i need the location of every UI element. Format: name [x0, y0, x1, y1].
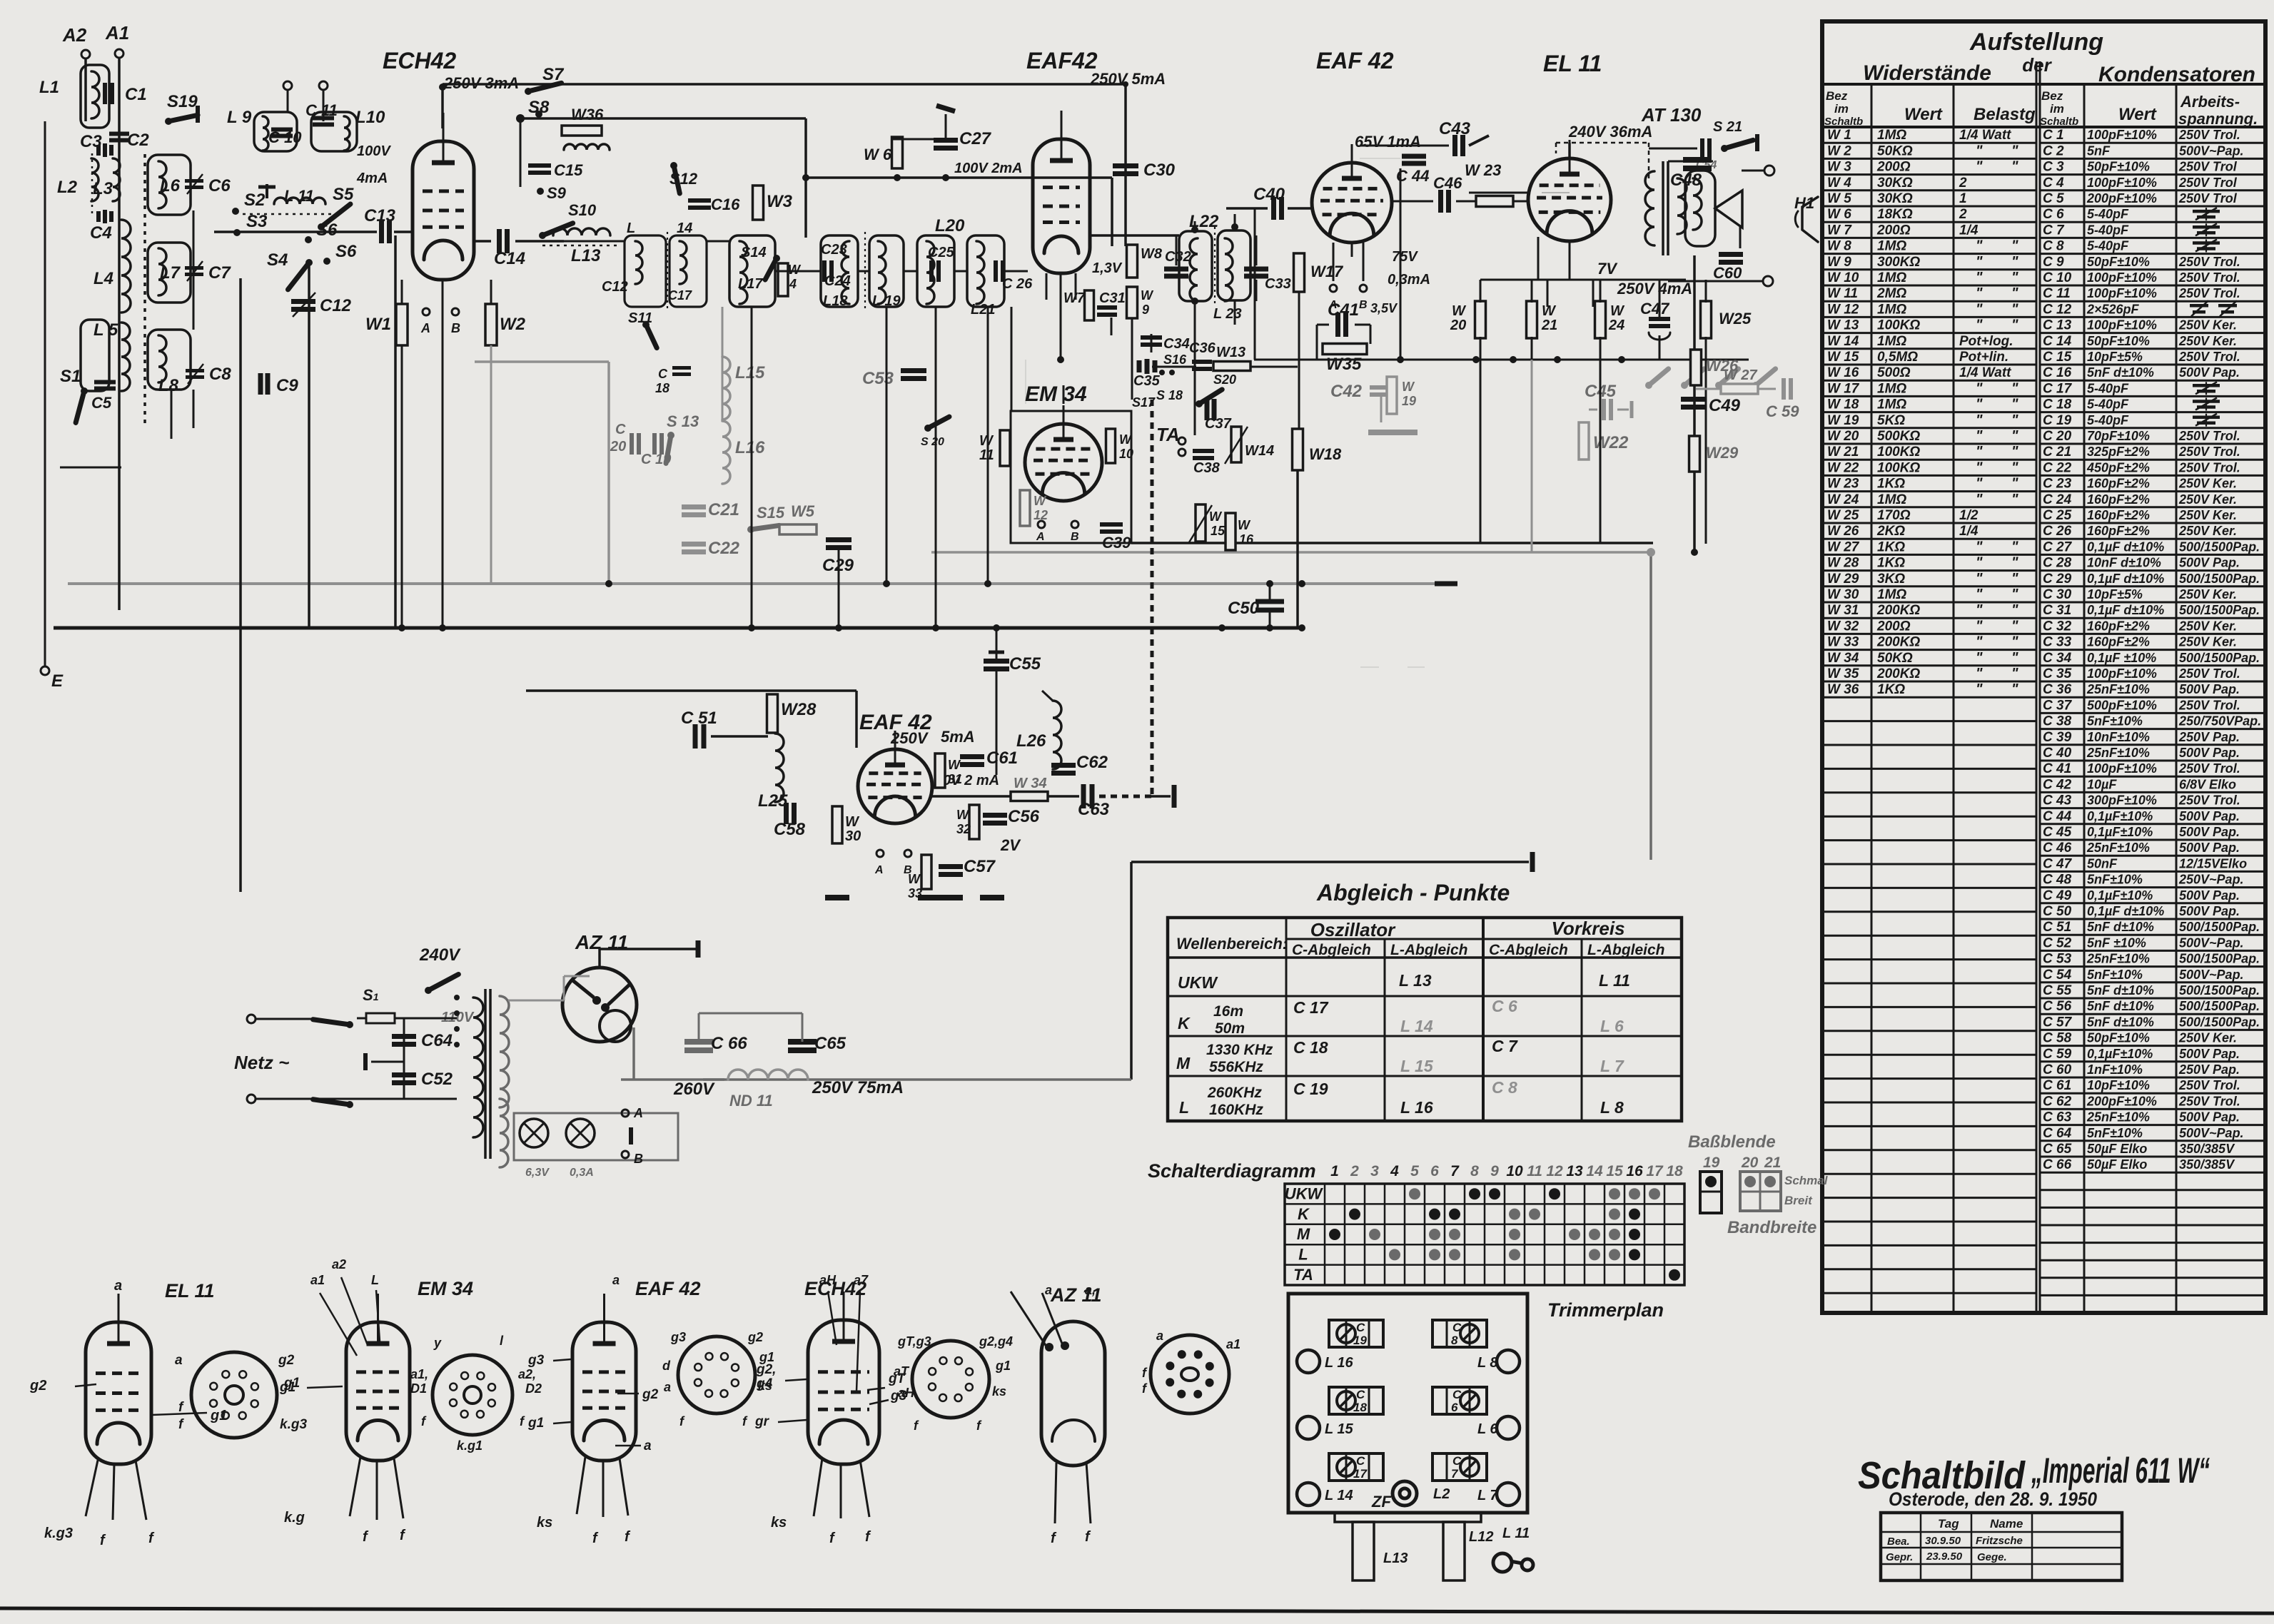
svg-text:W 11: W 11: [1827, 286, 1858, 301]
svg-text:500V Pap.: 500V Pap.: [2179, 825, 2240, 839]
svg-text:75V: 75V: [1392, 249, 1418, 265]
svg-text:a: a: [1156, 1329, 1163, 1343]
svg-text:g3: g3: [670, 1330, 686, 1344]
choke ND11: [728, 1070, 808, 1080]
svg-text:19: 19: [1402, 394, 1416, 408]
svg-text:17: 17: [1646, 1163, 1664, 1179]
svg-text:Oszillator: Oszillator: [1310, 919, 1396, 940]
svg-text:": ": [2011, 602, 2018, 618]
svg-text:7V: 7V: [1597, 260, 1618, 278]
svg-text:L 13: L 13: [1399, 971, 1432, 990]
svg-text:W 16: W 16: [1827, 365, 1859, 380]
svg-text:C 50: C 50: [2043, 904, 2072, 919]
wire c66 up: [698, 1013, 700, 1042]
svg-text:500V Pap.: 500V Pap.: [2179, 556, 2240, 570]
svg-text:C 5: C 5: [2043, 191, 2064, 206]
capacitor C60: [1719, 255, 1743, 263]
svg-text:5-40pF: 5-40pF: [2087, 239, 2129, 253]
svg-text:Pot+lin.: Pot+lin.: [1959, 350, 2008, 365]
svg-text:100V: 100V: [357, 143, 391, 159]
svg-text:Fritzsche: Fritzsche: [1976, 1535, 2023, 1547]
wire c64 c52 column: [403, 1018, 405, 1099]
svg-text:C 11: C 11: [2043, 286, 2071, 301]
speaker horn: [1715, 191, 1742, 228]
svg-text:50µF Elko: 50µF Elko: [2087, 1142, 2147, 1156]
capacitor C34: [1141, 338, 1162, 345]
wire eaf2 legs: [1333, 243, 1363, 281]
svg-text:a2: a2: [332, 1257, 346, 1272]
wire el11 cathode: [1569, 241, 1571, 280]
wire out y1116: [932, 795, 1011, 798]
resistor W1: [396, 304, 408, 345]
svg-text:250V Pap.: 250V Pap.: [2178, 730, 2240, 744]
svg-text:im: im: [2050, 102, 2064, 116]
svg-text:C 19: C 19: [2043, 413, 2072, 428]
svg-text:ECH42: ECH42: [383, 48, 456, 73]
svg-text:500V~Pap.: 500V~Pap.: [2179, 935, 2244, 950]
svg-text:500Ω: 500Ω: [1877, 365, 1911, 380]
svg-text:30: 30: [845, 828, 861, 844]
svg-text:50pF±10%: 50pF±10%: [2087, 255, 2150, 269]
svg-text:g1: g1: [995, 1359, 1011, 1373]
svg-text:C48: C48: [1670, 171, 1702, 190]
svg-text:A2: A2: [62, 24, 87, 46]
svg-text:a1: a1: [1226, 1337, 1240, 1351]
svg-text:C 61: C 61: [2043, 1078, 2071, 1093]
svg-text:k.g3: k.g3: [280, 1417, 307, 1432]
svg-text:250V Ker.: 250V Ker.: [2178, 619, 2237, 633]
svg-text:32: 32: [956, 822, 971, 836]
svg-text:L 6: L 6: [1477, 1421, 1498, 1437]
svg-text:C: C: [658, 367, 668, 381]
svg-text:Pot+log.: Pot+log.: [1959, 334, 2013, 349]
svg-text:": ": [1976, 318, 1983, 333]
svg-text:a: a: [612, 1273, 620, 1287]
svg-text:EM 34: EM 34: [1025, 382, 1087, 406]
svg-text:": ": [1976, 380, 1983, 396]
svg-text:W 36: W 36: [1827, 682, 1859, 697]
svg-text:250V Trol.: 250V Trol.: [2178, 445, 2240, 459]
capacitor C42 grey: [1370, 387, 1393, 422]
svg-text:C49: C49: [1709, 396, 1741, 415]
svg-text:250V Trol: 250V Trol: [2178, 191, 2238, 205]
svg-text:240V 36mA: 240V 36mA: [1568, 123, 1652, 141]
C33 capacitor: [1244, 269, 1268, 276]
svg-text:W18: W18: [1309, 445, 1342, 463]
svg-text:Osterode, den 28. 9. 1950: Osterode, den 28. 9. 1950: [1889, 1488, 2097, 1510]
transformer core: [485, 989, 490, 1159]
svg-text:250V Trol.: 250V Trol.: [2178, 761, 2240, 776]
svg-text:": ": [2011, 666, 2018, 681]
svg-text:W36: W36: [571, 106, 604, 123]
svg-text:5-40pF: 5-40pF: [2087, 223, 2129, 237]
svg-text:gr: gr: [754, 1414, 770, 1429]
svg-text:500V Pap.: 500V Pap.: [2179, 904, 2240, 918]
wire A2 down: [84, 59, 87, 121]
svg-text:W 27: W 27: [1724, 367, 1758, 383]
svg-text:C 55: C 55: [2043, 983, 2072, 998]
svg-text:aT: aT: [894, 1364, 910, 1379]
svg-text:C47: C47: [1640, 300, 1670, 318]
wire el11 left: [1469, 192, 1527, 194]
svg-text:W: W: [1119, 432, 1133, 447]
svg-text:L 14: L 14: [1325, 1488, 1353, 1503]
svg-text:23.9.50: 23.9.50: [1926, 1551, 1963, 1563]
svg-text:25nF±10%: 25nF±10%: [2086, 746, 2150, 760]
svg-text:W 35: W 35: [1827, 666, 1859, 681]
svg-text:250V Ker.: 250V Ker.: [2178, 587, 2237, 602]
L13 dashed: [542, 245, 621, 247]
svg-text:C62: C62: [1076, 753, 1108, 772]
svg-text:200Ω: 200Ω: [1876, 619, 1911, 634]
svg-text:L 23: L 23: [1213, 306, 1242, 322]
svg-text:100pF±10%: 100pF±10%: [2087, 176, 2157, 190]
svg-text:B: B: [634, 1152, 643, 1166]
svg-text:C 4: C 4: [2043, 176, 2064, 191]
svg-text:C23: C23: [821, 242, 847, 258]
resistor W27 grey: [1721, 384, 1758, 394]
svg-text:L12: L12: [1469, 1529, 1493, 1545]
capacitor C47: [1649, 319, 1670, 340]
svg-text:500/1500Pap.: 500/1500Pap.: [2179, 983, 2260, 998]
svg-text:C 62: C 62: [2043, 1094, 2072, 1109]
svg-text:W 28: W 28: [1827, 556, 1859, 571]
wire L26 corner: [1042, 691, 1053, 701]
svg-text:L6: L6: [160, 176, 181, 196]
svg-text:L 5: L 5: [94, 320, 118, 340]
trimmer C6: [185, 174, 203, 194]
B+ terminal bar: [1530, 852, 1535, 872]
capacitor C5: [94, 382, 116, 389]
tube ECH42: [413, 113, 474, 280]
C53 capacitor: [901, 371, 926, 379]
capacitor C58: [787, 803, 794, 824]
svg-text:Vorkreis: Vorkreis: [1551, 918, 1624, 939]
svg-text:Schalterdiagramm: Schalterdiagramm: [1148, 1160, 1316, 1182]
svg-text:": ": [2011, 618, 2018, 634]
title Schaltbild Imperial 611 W: [1858, 1451, 2210, 1497]
capacitor C4: [98, 210, 111, 223]
wire down from AT130: [1693, 255, 1696, 552]
svg-text:W13: W13: [1216, 345, 1245, 360]
S6 dot b: [323, 258, 330, 265]
svg-text:k.g3: k.g3: [44, 1526, 73, 1541]
AZ11 socket diagram: [1142, 1329, 1240, 1414]
svg-text:4: 4: [1390, 1163, 1399, 1179]
capacitor C19: [655, 433, 662, 455]
junction dots: [398, 81, 1698, 631]
svg-text:": ": [1976, 476, 1983, 492]
svg-text:1MΩ: 1MΩ: [1877, 270, 1906, 285]
svg-text:C 66: C 66: [711, 1034, 747, 1053]
svg-text:C 51: C 51: [681, 709, 717, 728]
wire az plate: [598, 949, 601, 968]
svg-text:7: 7: [1450, 1163, 1460, 1179]
svg-text:L21: L21: [971, 302, 995, 318]
resistor W7: [1085, 290, 1094, 320]
svg-text:W2: W2: [500, 315, 526, 334]
svg-text:250V Ker.: 250V Ker.: [2178, 508, 2237, 522]
svg-text:Wellenbereich:: Wellenbereich:: [1176, 935, 1288, 953]
svg-text:C1: C1: [125, 85, 147, 104]
svg-text:5KΩ: 5KΩ: [1877, 413, 1905, 428]
wire y392 row: [1480, 279, 1527, 281]
terminal A1: [115, 49, 123, 58]
wire c55 top: [996, 628, 998, 660]
switch S12: [670, 162, 679, 193]
svg-text:250V Ker.: 250V Ker.: [2178, 492, 2237, 507]
terminal ukw1: [283, 81, 292, 90]
grey return bus: [931, 551, 1651, 554]
svg-text:260V: 260V: [673, 1080, 715, 1099]
svg-text:10: 10: [1119, 447, 1133, 461]
svg-text:14: 14: [1586, 1163, 1603, 1179]
wire el11 grid left: [1537, 237, 1540, 280]
resistor W21: [1527, 301, 1537, 338]
svg-text:C6: C6: [208, 176, 231, 196]
svg-text:C 10: C 10: [268, 128, 302, 146]
svg-text:": ": [1976, 571, 1983, 587]
capacitor C29: [826, 540, 852, 548]
wire down to EM34: [1011, 307, 1013, 411]
100V 2mA feed line: [806, 176, 1112, 179]
svg-text:C37: C37: [1205, 416, 1232, 432]
svg-text:g2: g2: [747, 1330, 763, 1344]
svg-text:15: 15: [1606, 1163, 1623, 1179]
svg-text:8: 8: [1470, 1163, 1479, 1179]
svg-text:500/1500Pap.: 500/1500Pap.: [2179, 952, 2260, 966]
svg-text:S16: S16: [1163, 352, 1187, 367]
wire to EL11: [1513, 201, 1528, 203]
svg-text:C42: C42: [1330, 382, 1363, 401]
S8 dot: [516, 114, 525, 123]
svg-text:L16: L16: [735, 438, 765, 457]
svg-text:10nF±10%: 10nF±10%: [2087, 730, 2150, 744]
svg-text:C 25: C 25: [2043, 508, 2072, 523]
svg-text:L13: L13: [1383, 1551, 1408, 1566]
svg-text:300KΩ: 300KΩ: [1877, 255, 1920, 270]
svg-text:C17: C17: [668, 288, 692, 303]
svg-text:S 20: S 20: [921, 436, 944, 448]
wire C55 down: [996, 671, 998, 775]
svg-text:5-40pF: 5-40pF: [2087, 381, 2129, 395]
wire out y1116b: [1048, 795, 1079, 798]
svg-text:250V Ker.: 250V Ker.: [2178, 1031, 2237, 1045]
C21 capacitor: [682, 507, 706, 515]
coil L2 L3 pair: [91, 153, 120, 214]
S6 dot a: [305, 236, 312, 243]
svg-text:": ": [1976, 634, 1983, 650]
svg-text:C 35: C 35: [2043, 666, 2072, 681]
svg-text:TA: TA: [1156, 424, 1180, 445]
Abgleich-Punkte alignment table: [1168, 880, 1682, 1121]
svg-text:200Ω: 200Ω: [1876, 223, 1911, 238]
svg-text:5-40pF: 5-40pF: [2087, 413, 2129, 427]
svg-text:170Ω: 170Ω: [1877, 508, 1911, 523]
svg-text:W 31: W 31: [1827, 603, 1859, 618]
EM34 box wire: [1011, 411, 1131, 543]
svg-text:W25: W25: [1719, 310, 1752, 328]
svg-text:C: C: [1452, 1388, 1462, 1401]
svg-text:a: a: [175, 1353, 183, 1368]
svg-text:C27: C27: [959, 129, 992, 148]
svg-text:1/4 Watt: 1/4 Watt: [1959, 128, 2011, 143]
svg-text:aH: aH: [819, 1273, 837, 1287]
grey vertical right: [1649, 552, 1652, 860]
svg-text:13: 13: [1566, 1163, 1583, 1179]
svg-text:W28: W28: [781, 700, 817, 719]
resistor W18: [1293, 429, 1303, 470]
wire 1577 down: [1124, 84, 1127, 246]
svg-text:250V Trol.: 250V Trol.: [2178, 350, 2240, 364]
svg-text:L 7: L 7: [1477, 1488, 1498, 1503]
svg-text:1/4 Watt: 1/4 Watt: [1959, 365, 2011, 380]
svg-text:W29: W29: [1706, 444, 1739, 462]
svg-text:": ": [1976, 397, 1983, 412]
svg-text:2: 2: [1959, 176, 1967, 191]
svg-text:C13: C13: [364, 206, 396, 225]
svg-text:250V Trol.: 250V Trol.: [2178, 460, 2240, 474]
resistor W6: [892, 137, 903, 168]
svg-text:C: C: [1356, 1388, 1365, 1401]
wire ech42 cathode down: [442, 280, 444, 628]
capacitor C27: [934, 141, 958, 148]
svg-text:C 44: C 44: [2043, 809, 2072, 824]
svg-text:L4: L4: [94, 269, 113, 288]
wire y268 eaf2 el11: [1392, 201, 1433, 203]
svg-text:C65: C65: [814, 1034, 847, 1053]
dashed out: [1099, 795, 1151, 798]
svg-text:160pF±2%: 160pF±2%: [2087, 477, 2150, 491]
resistor W23: [1476, 196, 1513, 207]
wire W1 leads: [401, 280, 403, 628]
svg-text:K: K: [1298, 1205, 1310, 1223]
tube EL11: [1528, 140, 1611, 241]
svg-text:5nF d±10%: 5nF d±10%: [2087, 1015, 2154, 1029]
wire L22 top bus: [1191, 214, 1238, 233]
svg-text:C64: C64: [421, 1031, 453, 1050]
out terminal bar: [1172, 785, 1177, 808]
capacitor C45 grey: [1589, 399, 1632, 420]
svg-text:L 11: L 11: [1502, 1526, 1530, 1541]
svg-text:": ": [1976, 602, 1983, 618]
svg-text:0,1µF±10%: 0,1µF±10%: [2087, 1047, 2153, 1061]
capacitor C65: [788, 1042, 817, 1050]
svg-text:10µF: 10µF: [2087, 777, 2117, 791]
svg-text:L1: L1: [39, 78, 59, 97]
svg-text:": ": [2011, 539, 2018, 554]
svg-text:100pF±10%: 100pF±10%: [2087, 270, 2157, 285]
svg-text:M: M: [1297, 1225, 1310, 1243]
svg-text:": ": [1976, 143, 1983, 158]
IF2 L22 box: [1179, 231, 1212, 301]
resistor W5: [779, 524, 817, 534]
capacitor C64: [392, 1037, 416, 1045]
svg-text:6,3V: 6,3V: [525, 1167, 550, 1179]
svg-text:": ": [2011, 571, 2018, 587]
wire eaf1 legs: [1046, 273, 1076, 360]
svg-text:": ": [2011, 650, 2018, 666]
svg-text:1MΩ: 1MΩ: [1877, 239, 1906, 254]
svg-text:W1: W1: [365, 315, 391, 334]
svg-text:160KHz: 160KHz: [1209, 1102, 1263, 1118]
coil L7 box: [148, 243, 191, 303]
wire tuning line: [214, 230, 377, 233]
svg-text:5nF±10%: 5nF±10%: [2087, 873, 2143, 887]
svg-text:5nF d±10%: 5nF d±10%: [2087, 920, 2154, 934]
svg-text:C 63: C 63: [2043, 1110, 2072, 1125]
svg-text:EM 34: EM 34: [418, 1278, 473, 1299]
tube EM34: [1025, 405, 1102, 501]
svg-text:C 52: C 52: [2043, 935, 2072, 950]
resistor W25: [1701, 301, 1712, 338]
svg-text:S10: S10: [568, 201, 597, 219]
svg-text:C24: C24: [824, 273, 851, 289]
svg-text:C57: C57: [964, 857, 996, 876]
svg-text:a,: a,: [1085, 1283, 1096, 1297]
svg-text:25nF±10%: 25nF±10%: [2086, 841, 2150, 855]
svg-text:ND 11: ND 11: [729, 1092, 773, 1110]
svg-text:18KΩ: 18KΩ: [1877, 207, 1913, 222]
svg-text:EAF 42: EAF 42: [635, 1278, 701, 1299]
tube EAF42 third: [858, 731, 932, 823]
svg-text:350/385V: 350/385V: [2179, 1142, 2235, 1156]
svg-text:S 18: S 18: [1156, 388, 1183, 402]
svg-text:50nF: 50nF: [2087, 856, 2118, 871]
svg-text:18: 18: [1353, 1401, 1367, 1414]
coil L5: [121, 323, 130, 391]
svg-text:C55: C55: [1009, 654, 1041, 674]
svg-text:250V Trol.: 250V Trol.: [2178, 270, 2240, 285]
svg-text:1MΩ: 1MΩ: [1877, 587, 1906, 602]
svg-text:": ": [2011, 254, 2018, 270]
potentiometer W14: [1225, 427, 1248, 464]
wire C13 to tube: [394, 230, 413, 233]
svg-text:y: y: [433, 1336, 442, 1350]
svg-text:5: 5: [1410, 1163, 1419, 1179]
svg-text:250V Trol.: 250V Trol.: [2178, 128, 2240, 142]
svg-text:W 8: W 8: [1827, 239, 1851, 254]
resistor W17: [1294, 253, 1305, 292]
switch S1: [76, 387, 88, 422]
resistor W10: [1106, 429, 1116, 463]
svg-text:Wert: Wert: [1904, 105, 1943, 124]
svg-text:L 19: L 19: [872, 293, 901, 309]
svg-text:A: A: [1036, 531, 1045, 543]
svg-text:L20: L20: [935, 216, 965, 235]
svg-text:L2: L2: [57, 178, 78, 197]
capacitor C1: [105, 83, 112, 104]
wire out end: [1151, 795, 1171, 798]
svg-text:C: C: [1452, 1454, 1462, 1468]
svg-text:6/8V Elko: 6/8V Elko: [2179, 777, 2236, 791]
svg-text:7: 7: [1451, 1467, 1459, 1481]
coil L26: [1053, 701, 1061, 769]
svg-text:16: 16: [1239, 532, 1254, 547]
svg-text:W: W: [1034, 494, 1047, 508]
svg-text:100V 2mA: 100V 2mA: [954, 161, 1023, 176]
svg-text:C 64: C 64: [2043, 1126, 2072, 1141]
ground bus wire: [54, 626, 1299, 630]
svg-text:A1: A1: [105, 22, 129, 44]
svg-text:0,3mA: 0,3mA: [1388, 272, 1430, 288]
resistor W29: [1689, 436, 1700, 472]
svg-text:5nF±10%: 5nF±10%: [2087, 1126, 2143, 1140]
transformer taps: [454, 995, 460, 1047]
svg-text:350/385V: 350/385V: [2179, 1157, 2235, 1172]
svg-text:C 19: C 19: [1293, 1080, 1328, 1098]
coil L1: [91, 71, 99, 118]
